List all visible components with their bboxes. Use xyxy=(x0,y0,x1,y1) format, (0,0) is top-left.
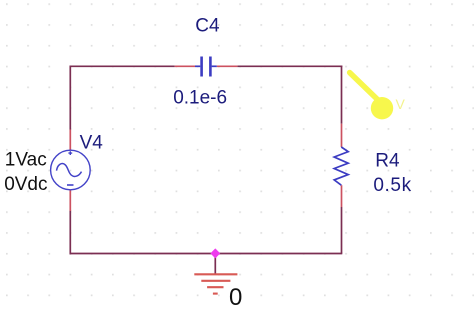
wire top (left of C4) xyxy=(70,65,175,67)
svg-text:V4: V4 xyxy=(80,133,104,154)
svg-text:0Vdc: 0Vdc xyxy=(4,174,47,195)
svg-text:1Vac: 1Vac xyxy=(5,149,47,170)
wire ground stub xyxy=(214,254,216,275)
wire left upper xyxy=(69,66,71,130)
svg-text:0.5k: 0.5k xyxy=(373,175,411,196)
svg-text:R4: R4 xyxy=(375,150,400,171)
junction node xyxy=(210,248,220,258)
resistor R4 pin 1 (top) xyxy=(341,124,343,147)
voltage probe marker xyxy=(350,73,406,120)
wire left lower xyxy=(69,211,71,255)
voltage source V4 pin - (bottom) xyxy=(69,190,71,211)
resistor R4 pin 2 (bottom) xyxy=(341,185,343,207)
wire top (right of C4) xyxy=(237,65,342,67)
svg-text:C4: C4 xyxy=(195,16,220,37)
capacitor C4 xyxy=(195,57,217,77)
resistor R4 xyxy=(334,147,348,185)
svg-text:0: 0 xyxy=(229,284,242,311)
voltage source V4 xyxy=(51,150,91,190)
wire bottom xyxy=(70,253,343,255)
wire right lower xyxy=(341,207,343,254)
wire right upper xyxy=(341,66,343,124)
capacitor C4 pin 1 xyxy=(175,65,195,67)
svg-text:0.1e-6: 0.1e-6 xyxy=(173,88,227,109)
ground 0 xyxy=(194,274,237,293)
svg-text:V: V xyxy=(396,96,406,112)
capacitor C4 pin 2 xyxy=(217,65,238,67)
voltage source V4 pin + (top) xyxy=(69,130,71,151)
